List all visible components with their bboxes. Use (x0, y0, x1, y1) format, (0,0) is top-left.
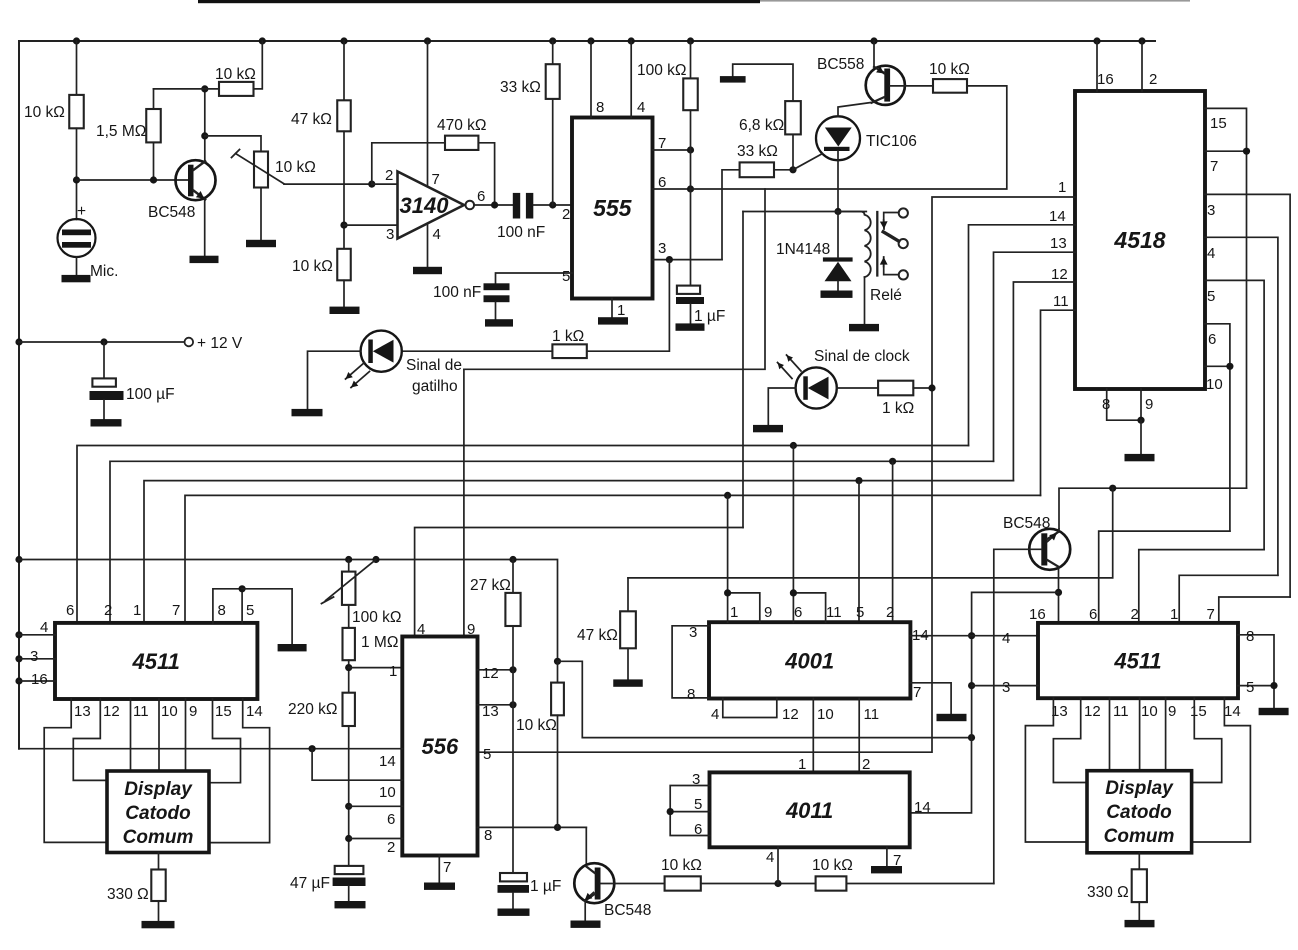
wire 3140 pin7 to rail (427, 41, 429, 186)
ground mic (62, 275, 91, 282)
trimpot tick (232, 150, 240, 158)
junction W1/47k branch (1109, 485, 1116, 492)
wire 556 pin13 (478, 704, 514, 706)
wire 4518 pin6 down (1205, 324, 1230, 531)
junction rail/4518 pin16 (1093, 37, 1100, 44)
wire W5 4518p3 to 4511R p7 (1219, 597, 1290, 623)
wire LED clock to 1k (837, 387, 878, 389)
wire 4518 pin11 down (1041, 310, 1076, 495)
wire 100nF to 555 pin2 (533, 204, 572, 206)
svg-text:11: 11 (864, 706, 880, 723)
svg-text:100 nF: 100 nF (433, 284, 481, 301)
wire 4011 pin7 to ground (886, 847, 888, 866)
wire 4001 pins3-8 loop (672, 626, 709, 698)
junction bus D / 4001 p1-9 (724, 492, 731, 499)
capacitor C 1 µF 556 (500, 873, 527, 881)
wire 4511L pin9 to display (185, 699, 187, 771)
svg-text:10 kΩ: 10 kΩ (812, 857, 853, 874)
LED arrow 1 (346, 363, 365, 380)
pot tick (322, 597, 334, 604)
wire 4518 pin2 to rail (1141, 41, 1143, 91)
svg-text:3: 3 (1207, 202, 1215, 219)
capacitor C 100 nF pin5 (484, 283, 510, 290)
svg-text:100 kΩ: 100 kΩ (637, 62, 687, 79)
junction 1M/556 pin1 (345, 664, 352, 671)
svg-text:9: 9 (467, 621, 475, 638)
wire between 10ks (701, 883, 816, 885)
svg-text:Mic.: Mic. (90, 263, 118, 280)
junction rail/33k (549, 37, 556, 44)
wire LED clock to ground (768, 388, 795, 425)
junction Vdd/4511R p3 (968, 682, 975, 689)
svg-text:556: 556 (422, 734, 459, 759)
wire Q1 emitter to ground (204, 199, 206, 256)
junction 4011 pin4 (774, 880, 781, 887)
svg-text:4: 4 (1002, 630, 1010, 647)
svg-text:8: 8 (1246, 628, 1254, 645)
wire W3 4518p5 to 4511R p2 (1139, 550, 1264, 623)
junction p6-11 loop/bus A (790, 589, 797, 596)
wire 4001 pins1-9 loop (728, 593, 760, 622)
wire 4511R pin9 to display (1165, 698, 1167, 771)
junction rail/47k (340, 37, 347, 44)
svg-text:10 kΩ: 10 kΩ (661, 857, 702, 874)
svg-text:330 Ω: 330 Ω (1087, 884, 1129, 901)
LED Sinal de gatilho (361, 331, 402, 372)
resistor R 1 kΩ gatilho (552, 344, 586, 358)
wire bus C 4518p12 to 4511L p1 (144, 481, 1013, 623)
wire bus B tap to 4001 p2 (892, 461, 894, 622)
svg-text:220 kΩ: 220 kΩ (288, 701, 338, 718)
junction 1,5M/base (150, 176, 157, 183)
svg-text:4518: 4518 (1113, 227, 1165, 253)
junction coupling/33k (549, 201, 556, 208)
junction Vdd vertical (968, 734, 975, 741)
svg-text:7: 7 (172, 602, 180, 619)
ground divider (330, 307, 360, 314)
svg-text:4011: 4011 (785, 798, 833, 823)
svg-text:2: 2 (385, 167, 393, 184)
svg-text:7: 7 (443, 859, 451, 876)
junction pin2/470k (368, 181, 375, 188)
svg-text:+ 12 V: + 12 V (197, 335, 243, 352)
wire 4511L pin3 to rail (19, 658, 55, 660)
transistor Q2 BC558 (866, 66, 905, 105)
terminal +12V (185, 338, 194, 347)
svg-text:1: 1 (1058, 179, 1066, 196)
resistor R 6,8 kΩ (785, 101, 801, 134)
wire 1M to 220k (348, 660, 350, 693)
wire 4511R pin10 to display (1139, 698, 1141, 771)
trimpot P1 10 kΩ body (254, 152, 268, 188)
wire 4518 pin1 to 556 pin5 (478, 197, 1076, 752)
junction node base (73, 176, 80, 183)
svg-text:Comum: Comum (123, 827, 194, 848)
display module left Display Catodo Comum (107, 771, 209, 853)
resistor R 10 kΩ 556 (551, 683, 564, 716)
svg-text:7: 7 (432, 171, 440, 188)
terminal tap bar (720, 76, 746, 83)
resistor R 47 kΩ divider (337, 100, 351, 131)
svg-text:4: 4 (40, 619, 48, 636)
junction tap/100uF (100, 338, 107, 345)
junction rail/555 pin8 (587, 37, 594, 44)
wire 4511L pin14 to display (209, 699, 270, 843)
ground trimpot (246, 240, 276, 247)
wire 4511R pin14 to display (1192, 698, 1251, 842)
svg-text:6: 6 (1089, 606, 1097, 623)
wire TIC anode to BC558 (838, 103, 871, 117)
svg-text:2: 2 (1149, 71, 1157, 88)
svg-text:5: 5 (694, 796, 702, 813)
wire 4511R pin12 to display (1053, 698, 1087, 782)
svg-text:33 kΩ: 33 kΩ (737, 143, 778, 160)
wire 4518 pin16 to rail (1096, 41, 1098, 91)
resistor R 10 kΩ bottom right (816, 876, 847, 890)
svg-text:3: 3 (692, 771, 700, 788)
relay arrow NC (883, 220, 885, 229)
wire Q3 base down to 10k net (994, 549, 1042, 883)
wire rail to R 47k (343, 41, 345, 100)
svg-text:100 kΩ: 100 kΩ (352, 609, 402, 626)
svg-text:9: 9 (189, 703, 197, 720)
ground 4511L pins8-5 (278, 644, 307, 651)
wire 4518 pin5 down (1205, 280, 1264, 549)
ground 47uF (335, 901, 366, 908)
emitter arrow BC558 (876, 68, 885, 74)
wire 4511R pin11 to display (1109, 698, 1111, 771)
wire 555 pin6 (653, 188, 691, 190)
svg-text:4511: 4511 (132, 649, 180, 674)
wire Q1 collector riser (204, 89, 206, 162)
ground 1uF (676, 323, 705, 330)
junction pin3/1k gatilho (666, 256, 673, 263)
capacitor C 1 µF timing (677, 286, 700, 294)
wire 4518 pin7 (1205, 150, 1247, 152)
junction rail/4511 pin4 (15, 631, 22, 638)
wire Vdd vertical net (972, 592, 1059, 737)
ground LED clock (753, 425, 783, 432)
junction collector/pot feed (201, 132, 208, 139)
junction pin6/pin10 (1226, 363, 1233, 370)
capacitor C 47 µF (335, 866, 364, 874)
junction rail/+12V tap (15, 338, 22, 345)
svg-text:3140: 3140 (400, 193, 450, 218)
wire node to diode (837, 212, 839, 258)
svg-text:Catodo: Catodo (125, 803, 190, 824)
junction Vcc/pot wiper (372, 556, 379, 563)
svg-text:1,5 MΩ: 1,5 MΩ (96, 123, 146, 140)
junction rail/10k (73, 37, 80, 44)
svg-text:47 kΩ: 47 kΩ (291, 111, 332, 128)
svg-text:12: 12 (1084, 703, 1101, 720)
pot wiper diagonal (326, 560, 377, 601)
svg-text:Display: Display (1105, 778, 1174, 799)
junction pins8-9 ground (1137, 417, 1144, 424)
junction Vdd/4001 p14 (968, 632, 975, 639)
wire to ground (1140, 420, 1142, 454)
junction pin14/pin10 jog (309, 745, 316, 752)
wire 555 pin4 to rail (630, 41, 632, 118)
svg-text:10 kΩ: 10 kΩ (24, 104, 65, 121)
svg-text:16: 16 (1097, 71, 1114, 88)
scan artifact bar (decorative) (198, 0, 760, 3)
wire W4 4518p4 to 4511R p1 (1179, 575, 1278, 623)
wire 555 pin1 to ground (611, 299, 613, 318)
wire 4001 p14 to 4511R p4 (910, 635, 1038, 637)
IC U5 556 (402, 637, 477, 856)
svg-text:15: 15 (215, 703, 232, 720)
svg-text:6: 6 (658, 174, 666, 191)
svg-text:BC548: BC548 (1003, 515, 1050, 532)
svg-text:3: 3 (658, 240, 666, 257)
wire clock tap down-left (464, 189, 765, 369)
svg-text:2: 2 (104, 602, 112, 619)
wire output to C 100nF (474, 204, 513, 206)
svg-text:1: 1 (617, 302, 625, 319)
junction pin8/10k (554, 824, 561, 831)
wire 4011 pin4 down (777, 847, 779, 883)
svg-text:5: 5 (1246, 679, 1254, 696)
svg-text:8: 8 (218, 602, 226, 619)
svg-text:10 kΩ: 10 kΩ (215, 66, 256, 83)
junction collector/Vdd wire (1055, 589, 1062, 596)
transistor Q1 BC548 input (176, 160, 216, 200)
junction rail/555 pin4 (628, 37, 635, 44)
wire Q3 collector to 4511R pin16 (1058, 567, 1060, 623)
wire +12V tap (19, 341, 185, 343)
svg-text:1: 1 (730, 604, 738, 621)
svg-text:14: 14 (1224, 703, 1241, 720)
wire 4001 p7 to ground (910, 683, 951, 714)
svg-text:555: 555 (593, 195, 633, 221)
wire 4511L pin12 to display (73, 699, 107, 780)
wire rail to R 10k (76, 41, 78, 95)
resistor R 1,5 MΩ (146, 109, 161, 142)
wire 4518 pin10 (1205, 365, 1230, 367)
svg-text:9: 9 (764, 604, 772, 621)
junction Vcc/27k (509, 556, 516, 563)
ground 4518 (1125, 454, 1155, 461)
svg-text:4: 4 (637, 99, 645, 116)
svg-text:8: 8 (484, 827, 492, 844)
wire 4518 pin15 down right (1205, 108, 1247, 488)
wire 4001 pins4-12 loop (723, 699, 777, 718)
LED clock arrow 1 (787, 355, 802, 371)
ground 100nF (485, 319, 513, 326)
wire 556 pin2 (349, 838, 403, 840)
wire trimpot to ground (260, 188, 262, 240)
svg-text:11: 11 (133, 703, 149, 720)
svg-text:15: 15 (1190, 703, 1207, 720)
wire bus D 4518p11 to 4511L p7 (185, 495, 1041, 623)
wire BC558 emitter to rail (873, 41, 875, 67)
svg-text:1: 1 (389, 663, 397, 680)
svg-text:1 MΩ: 1 MΩ (361, 634, 398, 651)
wire 555 pin7 (653, 149, 691, 151)
LED arrow 2 (351, 372, 370, 388)
wire W1 branch to 47k (628, 488, 1113, 578)
IC U4 4511 left (55, 623, 257, 699)
wire loop to ground (242, 589, 292, 644)
wire 4518 pin12 down (1013, 282, 1075, 481)
svg-text:10: 10 (817, 706, 834, 723)
svg-text:4: 4 (417, 621, 425, 638)
junction rail/100k (687, 37, 694, 44)
junction collector/10k feedback (201, 85, 208, 92)
wire 4511R pin15 to display (1192, 698, 1222, 782)
junction clock line (928, 384, 935, 391)
wire 4511L pin10 to display (158, 699, 160, 771)
wire pin2 up to 470k (372, 143, 445, 184)
wire 1,5M top to R 10k fb (154, 88, 220, 90)
resistor R 100 kΩ (683, 78, 698, 110)
ground 555 pin1 (598, 317, 628, 324)
wire display to 330 right (1138, 853, 1140, 870)
ground 4511R pins8-5 (1259, 708, 1289, 715)
wire rail to R 33k (552, 41, 554, 64)
relay arrow NO (883, 257, 885, 267)
svg-text:gatilho: gatilho (412, 378, 458, 395)
junction rail/10k horiz (259, 37, 266, 44)
svg-text:Comum: Comum (1104, 826, 1175, 847)
svg-text:14: 14 (914, 799, 931, 816)
wire bus A tap to 4001 p6 (792, 446, 794, 593)
svg-text:8: 8 (687, 686, 695, 703)
svg-text:14: 14 (1049, 208, 1066, 225)
wire 4518 pins8-9 loop (1107, 389, 1141, 420)
wire 6,8k to gate node (792, 134, 794, 169)
thyristor TIC106 (816, 116, 860, 160)
transistor Q4 BC548 bottom (574, 863, 614, 903)
wire 556 pin12 (478, 669, 514, 671)
svg-text:7: 7 (1207, 606, 1215, 623)
ground 330 right (1125, 920, 1155, 927)
wire pin3 down to 1k (587, 260, 670, 352)
wire 4518 pin3 down (1205, 194, 1290, 597)
svg-text:8: 8 (596, 99, 604, 116)
resistor R 220 kΩ (343, 693, 355, 726)
junction 8-5 loop (239, 585, 246, 592)
IC U7 4011 (710, 772, 910, 847)
wire 47k mid to ground (627, 648, 629, 679)
wire 4511L pin15 to display (209, 699, 241, 783)
junction bus C / 4001 p5 (855, 477, 862, 484)
wire 1,5M to base (153, 142, 155, 180)
wire bus D tap to 4001 p1 (727, 495, 729, 593)
wire 556 pin10 jog (312, 749, 402, 781)
ground 4001 p7 (937, 714, 967, 721)
resistor R 27 kΩ (505, 593, 520, 626)
svg-text:2: 2 (1131, 606, 1139, 623)
svg-text:6: 6 (66, 602, 74, 619)
wire 555 pin5 to cap (496, 273, 573, 283)
wire W2 4518p6 to 4511R p6 (1099, 531, 1230, 623)
wire 220k down to 47uF (348, 726, 350, 866)
junction pin12/27k (509, 666, 516, 673)
svg-text:10 kΩ: 10 kΩ (275, 159, 316, 176)
IC U6 4001 (709, 622, 910, 698)
wire divider to op-amp pin3 (344, 224, 398, 226)
svg-text:11: 11 (1053, 293, 1069, 310)
wire 4001 p10 to 4011 p1 (812, 699, 814, 773)
svg-text:10 kΩ: 10 kΩ (929, 61, 970, 78)
wire 1uF to ground (512, 893, 514, 909)
junction 220k/556 pin2 (345, 835, 352, 842)
junction rail/BC558 (870, 37, 877, 44)
wire Q4 emitter to ground (584, 901, 586, 921)
svg-text:470 kΩ: 470 kΩ (437, 117, 487, 134)
wire 556 pin8 (478, 826, 587, 828)
resistor R 33 kΩ (546, 64, 560, 99)
svg-text:BC548: BC548 (604, 902, 651, 919)
junction pin13 (509, 701, 516, 708)
wire Vcc to 27k (512, 560, 514, 593)
svg-text:15: 15 (1210, 115, 1227, 132)
wire relay node left (743, 211, 866, 213)
wire mic to ground (76, 257, 78, 275)
junction relay node (834, 208, 841, 215)
wire Vcc to pot 100k (348, 560, 350, 572)
relay core line (876, 212, 878, 276)
svg-text:1: 1 (798, 756, 806, 773)
relay K1 coil (838, 212, 871, 278)
wire rail to R 100k (690, 41, 692, 78)
wire 470k to output (478, 143, 494, 205)
wire bus C tap to 4001 p5 (858, 481, 860, 623)
wire gate diagonal (793, 154, 823, 170)
svg-text:+: + (77, 203, 86, 220)
wire 10k to Q3 base net (846, 883, 993, 885)
svg-text:12: 12 (103, 703, 120, 720)
svg-text:11: 11 (826, 604, 842, 621)
wire 556 pin6 (349, 805, 403, 807)
wire 10k top (557, 661, 559, 682)
wire 27k to pins12-13 and 1uF (512, 626, 514, 873)
resistor R 1 kΩ clock (878, 381, 913, 396)
wire 33k to pin2 node (552, 99, 554, 205)
resistor R 10 kΩ divider (337, 249, 351, 280)
svg-text:9: 9 (1168, 703, 1176, 720)
resistor R 10k feedback (219, 82, 254, 96)
wire 4511R pin8 right (1238, 635, 1274, 708)
svg-text:Relé: Relé (870, 287, 902, 304)
wire 4511R pin5 right (1238, 685, 1274, 687)
wire display to 330 (158, 853, 160, 870)
svg-text:6,8 kΩ: 6,8 kΩ (739, 117, 784, 134)
wire diode to ground (837, 281, 839, 290)
svg-text:1: 1 (1170, 606, 1178, 623)
ground 556 pin7 (424, 883, 455, 890)
IC U2 555 timer (572, 118, 653, 299)
svg-text:BC558: BC558 (817, 56, 864, 73)
svg-text:7: 7 (1210, 158, 1218, 175)
IC U8 4511 right (1038, 623, 1238, 698)
op-amp U1 3140 (398, 172, 465, 239)
capacitor C 100 nF coupling (513, 193, 520, 219)
wire 4511L pin4 to rail (19, 634, 55, 636)
svg-text:2: 2 (562, 206, 570, 223)
ground Q1 emitter (190, 256, 219, 263)
IC U3 4518 (1075, 91, 1205, 389)
svg-text:100 µF: 100 µF (126, 386, 175, 403)
wire to C 100uF (103, 342, 105, 378)
wire to R 1,5M (153, 89, 155, 109)
svg-text:9: 9 (1145, 396, 1153, 413)
electret microphone Mic. (58, 219, 96, 257)
svg-text:14: 14 (379, 753, 396, 770)
svg-text:6: 6 (794, 604, 802, 621)
